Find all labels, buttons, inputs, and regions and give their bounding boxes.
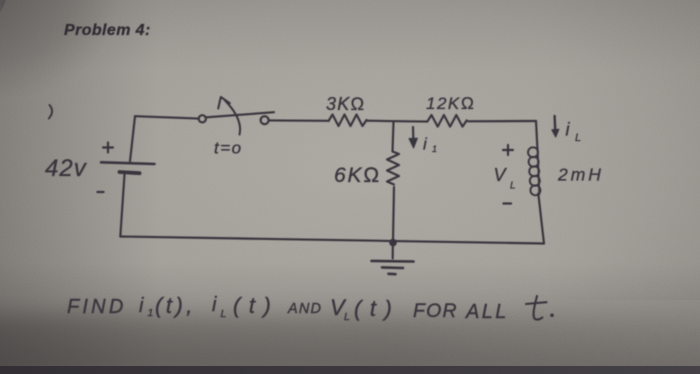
wire switch to R1 <box>269 119 329 122</box>
bottom shading <box>0 262 700 374</box>
top edge shading <box>0 0 700 70</box>
current arrow iL shaft <box>553 116 556 132</box>
battery minus sign <box>98 191 104 193</box>
svg-text:1: 1 <box>148 307 154 319</box>
wire bottom rail <box>120 237 544 244</box>
wire R1 to R2 through node <box>367 120 428 123</box>
junction dot <box>389 239 397 247</box>
wire right branch top <box>536 121 537 149</box>
svg-text:42v: 42v <box>45 155 88 182</box>
svg-text:V: V <box>494 165 508 185</box>
svg-text:6KΩ: 6KΩ <box>334 164 381 187</box>
switch SW1 arrowhead <box>218 97 230 109</box>
desk dark bar at bottom <box>0 366 700 374</box>
switch SW1 right contact <box>261 116 269 124</box>
resistor R2 12K zigzag <box>427 115 466 127</box>
svg-text:3KΩ: 3KΩ <box>326 94 365 114</box>
svg-text:ALL: ALL <box>465 301 509 323</box>
svg-text:L: L <box>575 132 581 144</box>
resistor R1 3K zigzag <box>329 115 367 127</box>
resistor R3 6K zigzag <box>387 152 399 185</box>
bottom text t. <box>534 296 543 320</box>
svg-text:FOR: FOR <box>413 300 458 322</box>
svg-text:L: L <box>221 308 227 320</box>
svg-text:12KΩ: 12KΩ <box>426 94 475 113</box>
ground stem <box>392 246 394 259</box>
top-left corner shading <box>0 0 180 160</box>
left shading <box>0 0 160 374</box>
ground bar 1 <box>372 260 414 263</box>
switch SW1 blade <box>207 112 275 117</box>
right edge shading <box>540 0 700 300</box>
svg-text:1: 1 <box>432 144 437 154</box>
wire battery bottom lead <box>120 175 124 237</box>
svg-text:t=o: t=o <box>214 139 243 158</box>
svg-text:2mH: 2mH <box>557 165 604 185</box>
svg-text:(t): (t) <box>354 296 400 321</box>
wire R2 to top-right corner <box>468 120 536 122</box>
switch SW1 motion arc <box>225 101 240 135</box>
wire 6K branch top <box>393 122 394 152</box>
current arrow i1 shaft <box>412 127 415 143</box>
battery B1 short plate <box>120 172 140 173</box>
battery plus sign <box>103 143 113 153</box>
current arrow iL head <box>552 129 559 137</box>
wire top-left vertical (battery top lead) <box>130 116 135 161</box>
svg-text:FIND: FIND <box>67 296 126 318</box>
svg-text:(t): (t) <box>233 293 279 318</box>
ground bar 2 <box>382 266 403 269</box>
svg-text:AND: AND <box>287 301 322 317</box>
stray paren mark <box>49 105 52 119</box>
wire right branch bottom <box>538 194 544 244</box>
bottom-left corner shading <box>0 230 330 374</box>
svg-text:(t),: (t), <box>155 293 196 318</box>
switch SW1 left contact <box>199 115 206 122</box>
inductor L1 coil <box>528 147 540 195</box>
wire top rail left <box>135 116 199 118</box>
svg-text:i: i <box>212 294 217 316</box>
ground bar 3 <box>389 272 396 275</box>
wire 6K branch bottom <box>393 187 394 240</box>
current arrow i1 head <box>409 138 417 148</box>
svg-text:Problem 4:: Problem 4: <box>64 22 151 39</box>
svg-text:L: L <box>344 311 350 323</box>
bottom band shading <box>0 314 700 374</box>
svg-text:L: L <box>510 181 516 192</box>
inductor minus sign <box>504 202 512 204</box>
inductor plus sign <box>503 145 513 155</box>
battery B1 long plate <box>101 162 155 164</box>
svg-text:i: i <box>139 295 144 317</box>
corner dark wedge <box>0 0 6 13</box>
